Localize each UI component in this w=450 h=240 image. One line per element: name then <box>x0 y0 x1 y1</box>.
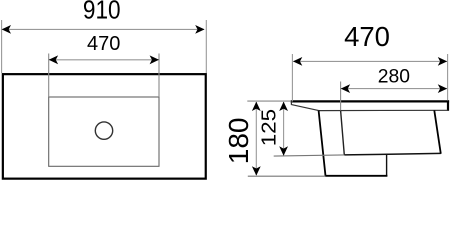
svg-text:470: 470 <box>344 21 390 52</box>
svg-text:125: 125 <box>258 109 281 146</box>
svg-text:910: 910 <box>83 0 121 25</box>
svg-text:470: 470 <box>87 33 120 55</box>
svg-text:180: 180 <box>223 118 254 165</box>
svg-text:280: 280 <box>378 67 410 88</box>
